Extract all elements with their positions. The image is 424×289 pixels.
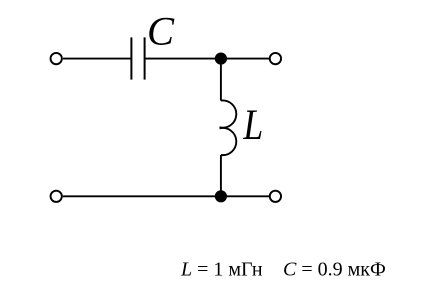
svg-text:L: L — [243, 101, 264, 149]
wire: node A down to inductor — [220, 59, 222, 101]
node A (top junction dot) — [215, 53, 227, 65]
node B (bottom junction dot) — [215, 190, 227, 202]
svg-text:C: C — [147, 8, 175, 53]
terminal T1 (top-left, open circle) — [51, 53, 62, 64]
wire: top-left terminal to capacitor left plate — [63, 58, 131, 60]
terminal T4 (bottom-right, open circle) — [270, 191, 281, 202]
capacitor C (two plates) — [131, 37, 144, 79]
wire: node A to top-right terminal — [221, 58, 269, 60]
terminal T2 (top-right, open circle) — [270, 53, 281, 64]
wire: bottom-left terminal to node B — [63, 195, 221, 197]
inductor L (two loops) — [220, 100, 237, 155]
wire: node B to bottom-right terminal — [221, 195, 269, 197]
wire: capacitor right plate to node A — [145, 58, 221, 60]
wire: inductor down to node B — [220, 155, 222, 196]
terminal T3 (bottom-left, open circle) — [51, 191, 62, 202]
svg-text:C = 0.9 мкФ: C = 0.9 мкФ — [283, 259, 386, 281]
svg-text:L = 1 мГн: L = 1 мГн — [180, 259, 263, 281]
